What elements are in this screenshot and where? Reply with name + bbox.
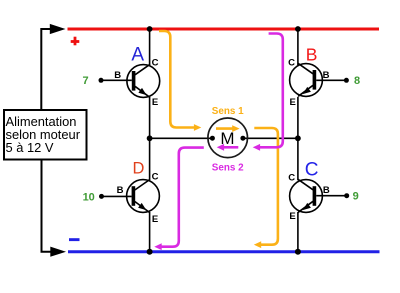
transistor D (NPN, bottom-left) bbox=[102, 180, 160, 213]
svg-text:C: C bbox=[288, 173, 295, 184]
sens 1 arrow inside motor bbox=[216, 127, 233, 130]
node: D base bbox=[99, 194, 104, 199]
svg-text:C: C bbox=[152, 58, 159, 69]
svg-text:C: C bbox=[305, 160, 319, 181]
node: motor right terminal bbox=[240, 136, 245, 141]
svg-text:E: E bbox=[152, 214, 158, 225]
node: crossbar left bbox=[147, 135, 153, 141]
node: B base bbox=[344, 78, 349, 83]
svg-text:B: B bbox=[323, 70, 330, 81]
transistor C (NPN, bottom-right, mirrored) bbox=[290, 179, 347, 212]
svg-text:E: E bbox=[290, 97, 296, 108]
svg-text:Sens 1: Sens 1 bbox=[212, 106, 244, 117]
svg-text:9: 9 bbox=[353, 190, 359, 202]
svg-text:Sens 2: Sens 2 bbox=[212, 163, 244, 174]
wire: left column segments bbox=[149, 29, 151, 65]
motor M bbox=[208, 118, 248, 158]
wire: right column segments bbox=[297, 29, 299, 65]
svg-text:B: B bbox=[117, 185, 124, 196]
wire: motor to crossbar right bbox=[243, 137, 298, 139]
node: C base bbox=[344, 193, 349, 198]
svg-text:D: D bbox=[132, 160, 144, 178]
sens 2 current path (magenta), left branch bbox=[162, 148, 204, 247]
wire: +V red bus bbox=[68, 28, 380, 31]
svg-text:C: C bbox=[288, 58, 295, 69]
node: blue bus / D emitter bbox=[147, 249, 153, 255]
node: crossbar right bbox=[295, 135, 301, 141]
label + (plus of supply) bbox=[71, 40, 80, 43]
power supply box: Alimentation selon moteur 5 à 12 V bbox=[4, 110, 87, 160]
node: blue bus / C emitter bbox=[295, 249, 301, 255]
svg-text:5 à 12 V: 5 à 12 V bbox=[6, 140, 54, 155]
sens 2 arrow inside motor bbox=[224, 146, 239, 149]
sens 1 current path (orange), left branch bbox=[159, 31, 195, 128]
svg-text:B: B bbox=[306, 45, 318, 65]
svg-text:E: E bbox=[289, 211, 295, 222]
arrowhead into - bus bbox=[50, 247, 66, 257]
svg-text:B: B bbox=[323, 185, 330, 196]
arrowhead sens1 to blue bus bbox=[254, 241, 261, 248]
node: A base bbox=[99, 78, 104, 83]
svg-text:A: A bbox=[131, 45, 144, 66]
wire: 0V blue bus bbox=[68, 250, 380, 253]
transistor A (NPN, top-left) bbox=[101, 64, 160, 97]
svg-text:7: 7 bbox=[82, 75, 88, 87]
node: red bus / A collector bbox=[147, 26, 153, 32]
node: motor left terminal bbox=[210, 136, 215, 141]
svg-text:B: B bbox=[114, 70, 121, 81]
svg-text:E: E bbox=[152, 97, 158, 108]
wire: supply to + bus bbox=[41, 29, 51, 110]
arrowhead into + bus bbox=[50, 24, 66, 34]
svg-text:C: C bbox=[152, 171, 159, 182]
label - (minus of supply) bbox=[69, 238, 80, 241]
arrowhead sens2 into motor bbox=[253, 144, 260, 151]
svg-text:8: 8 bbox=[354, 75, 360, 87]
wire: supply to - bus bbox=[42, 160, 53, 252]
sens 2 current path (magenta), right branch bbox=[260, 34, 283, 148]
arrowhead sens1 into motor bbox=[194, 124, 201, 131]
node: red bus / B collector bbox=[295, 26, 301, 32]
sens 1 current path (orange), right branch bbox=[254, 128, 278, 245]
wire: crossbar left to motor bbox=[150, 137, 213, 139]
svg-text:10: 10 bbox=[83, 191, 95, 203]
arrowhead sens2 to blue bus bbox=[154, 243, 161, 250]
transistor B (NPN, top-right, mirrored) bbox=[290, 63, 347, 96]
